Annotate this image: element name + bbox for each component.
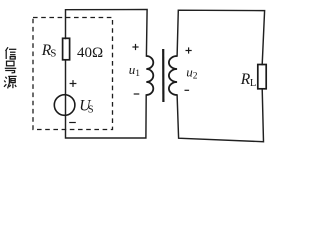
svg-text:2: 2 [193,71,198,81]
svg-text:S: S [88,105,94,116]
svg-text:40Ω: 40Ω [77,45,103,61]
svg-text:1: 1 [135,69,140,79]
svg-text:S: S [50,48,56,60]
svg-text:L: L [250,78,256,89]
